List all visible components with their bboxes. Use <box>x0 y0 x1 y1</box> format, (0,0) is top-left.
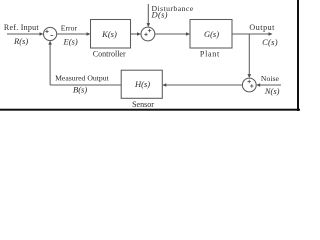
wire feedback up <box>49 44 51 85</box>
wire noise input <box>259 84 281 86</box>
arrowhead into sum2 left <box>137 32 141 36</box>
wire output branch down <box>248 34 250 75</box>
sign plus sum2 left <box>144 33 147 36</box>
svg-text:H(s): H(s) <box>134 79 150 89</box>
wire G to output <box>232 33 272 35</box>
svg-text:R(s): R(s) <box>13 36 28 46</box>
arrowhead into sum2 top <box>147 23 151 27</box>
arrowhead into sum1 bottom <box>48 41 52 45</box>
svg-text:E(s): E(s) <box>63 36 78 46</box>
arrowhead into K <box>87 32 91 36</box>
block K(s) controller box <box>91 20 131 49</box>
wire K to sum2 <box>131 33 139 35</box>
svg-text:N(s): N(s) <box>264 86 280 96</box>
svg-text:Sensor: Sensor <box>132 100 154 109</box>
svg-text:Ref. Input: Ref. Input <box>4 23 39 32</box>
arrowhead into sum3 right <box>256 83 260 87</box>
svg-text:C(s): C(s) <box>262 37 278 47</box>
sum junction S1 <box>44 27 57 40</box>
sign plus sum2 top <box>148 29 151 32</box>
arrowhead into sum3 top <box>248 74 252 78</box>
block H(s) sensor box <box>121 70 162 98</box>
svg-text:B(s): B(s) <box>73 85 87 95</box>
wire sum2 to G <box>155 33 187 35</box>
svg-text:G(s): G(s) <box>204 29 219 39</box>
sum junction S3 <box>242 78 256 92</box>
block G(s) plant box <box>190 20 232 49</box>
svg-text:Measured Output: Measured Output <box>55 74 109 83</box>
wire R input <box>7 33 41 35</box>
arrowhead output end <box>269 32 273 36</box>
frame bottom edge <box>0 109 300 111</box>
svg-text:D(s): D(s) <box>151 10 168 20</box>
sum junction S2 <box>141 27 155 41</box>
svg-text:Plant: Plant <box>200 49 220 58</box>
arrowhead into H right <box>162 83 166 87</box>
arrowhead into G <box>186 32 190 36</box>
svg-text:K(s): K(s) <box>101 29 117 39</box>
sign plus sum3 top <box>248 80 251 83</box>
svg-text:Output: Output <box>249 23 275 32</box>
wire sum1 to K <box>57 33 88 35</box>
arrowhead into sum1 <box>40 32 44 36</box>
frame right edge <box>297 0 299 111</box>
svg-text:Noise: Noise <box>261 74 280 83</box>
sign plus sum1 <box>45 30 48 33</box>
sign plus sum3 right <box>250 84 253 87</box>
svg-text:Controller: Controller <box>93 49 126 58</box>
svg-text:Error: Error <box>61 24 78 33</box>
wire sum3 to H <box>165 84 242 86</box>
wire disturbance drop <box>147 4 149 24</box>
wire H to corner <box>50 84 121 86</box>
sign minus sum1 <box>50 35 53 37</box>
